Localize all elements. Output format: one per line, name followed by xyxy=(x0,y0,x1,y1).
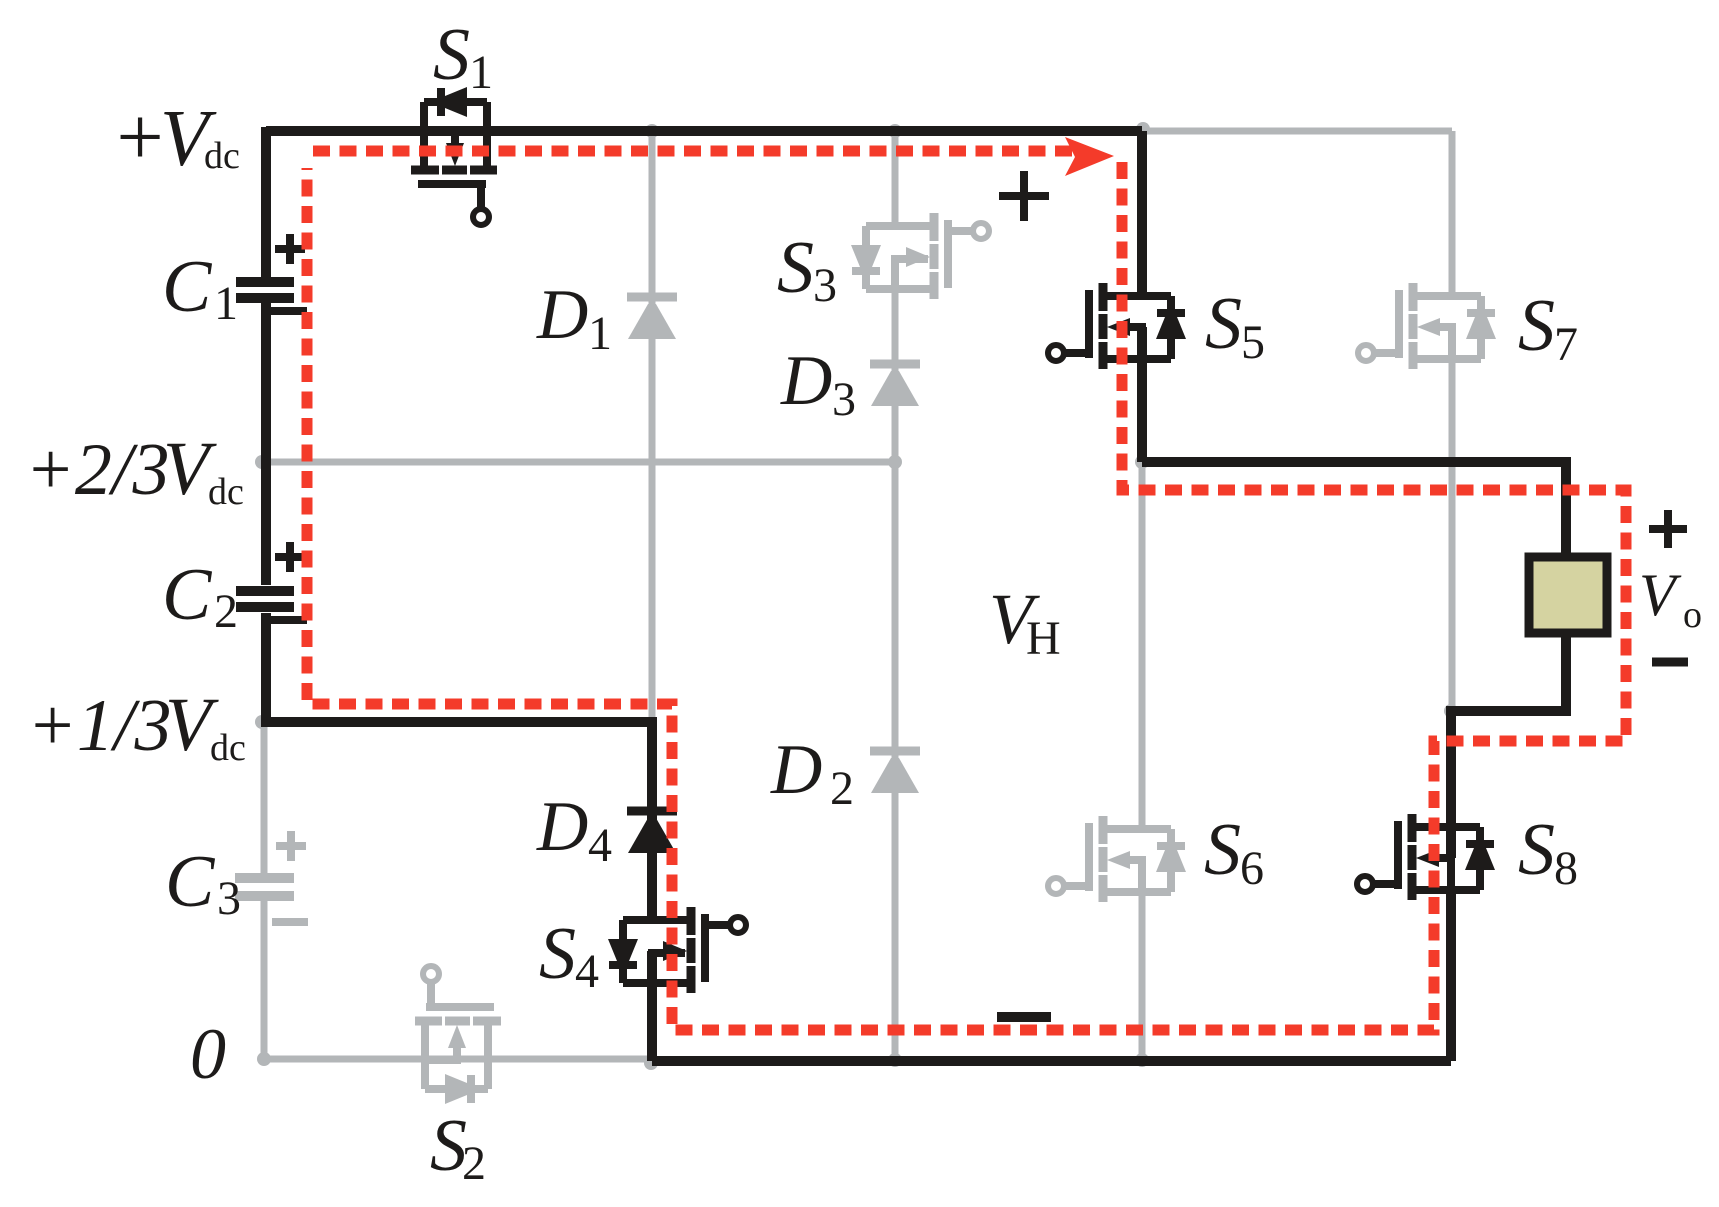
svg-text:+1/3: +1/3 xyxy=(27,685,172,767)
svg-text:0: 0 xyxy=(190,1014,226,1094)
diode D4 (black) xyxy=(627,811,677,853)
wire: C3 branch lower (C3 down to 0 rail) xyxy=(261,901,268,1059)
svg-text:S: S xyxy=(433,14,470,96)
wire: red dashed current path loop xyxy=(307,162,1626,1030)
VH polarity + xyxy=(999,171,1049,221)
node: 0 rail left end xyxy=(257,1052,271,1066)
VH polarity - xyxy=(997,1012,1051,1022)
capacitor C1 polarity - xyxy=(271,307,307,315)
capacitor C3 polarity - xyxy=(272,918,308,926)
svg-text:3: 3 xyxy=(217,872,241,925)
wire: S5 branch upper xyxy=(1137,131,1147,296)
transistor S4 (black, rotated 180) xyxy=(608,907,746,993)
node: +2/3Vdc rail left end xyxy=(255,455,269,469)
wire: load bottom connection xyxy=(1446,637,1566,711)
capacitor C2 polarity - xyxy=(271,616,307,624)
wire: S3/D3/D2 branch upper (top rail down to S3) xyxy=(892,131,899,226)
svg-text:C: C xyxy=(162,554,213,636)
wire: S7 branch upper (top rail down to S7) xyxy=(1449,131,1456,296)
wire: bottom rail black segment xyxy=(652,1056,1451,1066)
wire: S5 branch lower xyxy=(1137,327,1147,462)
capacitor C3 polarity + xyxy=(276,831,306,861)
svg-text:D: D xyxy=(536,276,588,354)
transistor S5 (black) xyxy=(1048,283,1186,369)
diode D1 (gray) xyxy=(627,297,677,339)
wire: S6 branch upper (VH+ node down to S6) xyxy=(1139,462,1146,829)
capacitor C2 polarity + xyxy=(275,542,305,572)
wire: C3 branch upper (from +1/3Vdc node down to C3) xyxy=(261,722,268,873)
wire: left vertical C2 to +1/3Vdc rail xyxy=(261,613,271,722)
svg-text:S: S xyxy=(1205,283,1242,365)
svg-text:C: C xyxy=(162,246,213,328)
red arrowhead xyxy=(1065,137,1114,176)
svg-text:1: 1 xyxy=(588,307,612,360)
transistor S2 (gray, on 0 rail, rotated) xyxy=(415,966,501,1104)
capacitor C3 (gray) plates xyxy=(235,878,294,896)
node: load-bottom / S7 / S8 xyxy=(1444,704,1458,718)
node: top rail / S3 branch xyxy=(888,124,902,138)
node: VH+ corner / S6 branch xyxy=(1135,455,1149,469)
diode D2 (gray) xyxy=(870,751,920,793)
svg-text:V: V xyxy=(1639,562,1682,628)
wire: 0 rail gray segment xyxy=(264,1056,652,1063)
capacitor C1 polarity + xyxy=(275,234,305,264)
node: bottom rail / D4 branch xyxy=(644,1056,658,1070)
svg-text:C: C xyxy=(165,841,216,923)
wire: left DC-link vertical, top rail to C1 xyxy=(261,127,271,277)
svg-text:S: S xyxy=(1204,809,1241,891)
Vo polarity - xyxy=(1652,658,1688,667)
svg-text:dc: dc xyxy=(208,471,244,513)
svg-text:3: 3 xyxy=(832,373,856,426)
wire: S8 branch lower xyxy=(1446,890,1456,1061)
wire: D1 branch segment over red path xyxy=(649,144,656,161)
svg-text:4: 4 xyxy=(588,819,612,872)
svg-text:D: D xyxy=(780,342,832,420)
svg-text:o: o xyxy=(1683,594,1702,636)
svg-text:2: 2 xyxy=(462,1137,486,1190)
transistor S8 (black) xyxy=(1357,814,1495,900)
wire: S8 branch upper to load-bottom node xyxy=(1446,711,1456,858)
node: +2/3Vdc rail / D3-D2 branch xyxy=(888,455,902,469)
node: top rail / S5 corner xyxy=(1136,122,1150,136)
node: bottom rail / S6 branch xyxy=(1135,1053,1149,1067)
svg-text:S: S xyxy=(1518,809,1555,891)
svg-text:5: 5 xyxy=(1241,316,1265,369)
wire: S6 branch lower (S6 down to bottom rail) xyxy=(1139,860,1146,1060)
svg-text:dc: dc xyxy=(204,135,240,177)
Vo polarity + xyxy=(1649,510,1687,548)
svg-text:1: 1 xyxy=(214,277,238,330)
svg-text:dc: dc xyxy=(210,727,246,769)
wire: +1/3Vdc rail xyxy=(261,717,652,727)
svg-text:1: 1 xyxy=(469,46,493,99)
wire: S4 to bottom rail xyxy=(647,951,657,1061)
wire: left vertical C1 to C2 xyxy=(261,303,271,585)
svg-text:D: D xyxy=(536,788,588,866)
load resistor box Vo xyxy=(1529,557,1607,633)
svg-text:S: S xyxy=(539,913,576,995)
svg-text:8: 8 xyxy=(1554,842,1578,895)
wire: S7 branch lower (S7 down to load-bottom node) xyxy=(1449,327,1456,711)
svg-text:2: 2 xyxy=(830,762,854,815)
transistor S7 (gray) xyxy=(1358,283,1496,369)
capacitor C2 plates xyxy=(236,591,294,607)
transistor S1 (black, on +Vdc rail, rotated) xyxy=(411,87,497,225)
svg-text:3: 3 xyxy=(813,259,837,312)
capacitor C1 plates xyxy=(236,282,294,298)
wire: top rail gray segment from S5 branch corner to S7 branch xyxy=(1142,128,1452,135)
svg-text:6: 6 xyxy=(1240,842,1264,895)
wire: load top connection xyxy=(1142,462,1566,553)
transistor S6 (gray) xyxy=(1048,816,1186,902)
node: bottom rail / D2 branch xyxy=(888,1053,902,1067)
svg-text:H: H xyxy=(1026,612,1061,665)
svg-text:S: S xyxy=(777,227,814,309)
svg-text:+2/3: +2/3 xyxy=(25,429,170,511)
svg-text:D: D xyxy=(770,731,822,809)
wire: red dashed top segment xyxy=(313,146,1072,157)
wire: +Vdc top rail xyxy=(266,126,1142,136)
node: top rail / D1 branch xyxy=(645,124,659,138)
wire: +2/3Vdc rail xyxy=(262,459,895,466)
wire: S3/D3/D2 branch lower (S3 down to bottom rail) xyxy=(892,257,899,1060)
transistor S3 (gray, rotated 180) xyxy=(851,213,989,299)
svg-text:S: S xyxy=(1518,285,1555,367)
wire: D4 branch (rail to S4) xyxy=(647,717,657,920)
diode D3 (gray) xyxy=(870,364,920,406)
svg-text:2: 2 xyxy=(214,585,238,638)
svg-text:7: 7 xyxy=(1554,318,1578,371)
node: +1/3Vdc corner xyxy=(255,715,269,729)
svg-text:4: 4 xyxy=(575,945,599,998)
wire: D1 branch (top rail down to +1/3Vdc rail) xyxy=(649,131,656,722)
